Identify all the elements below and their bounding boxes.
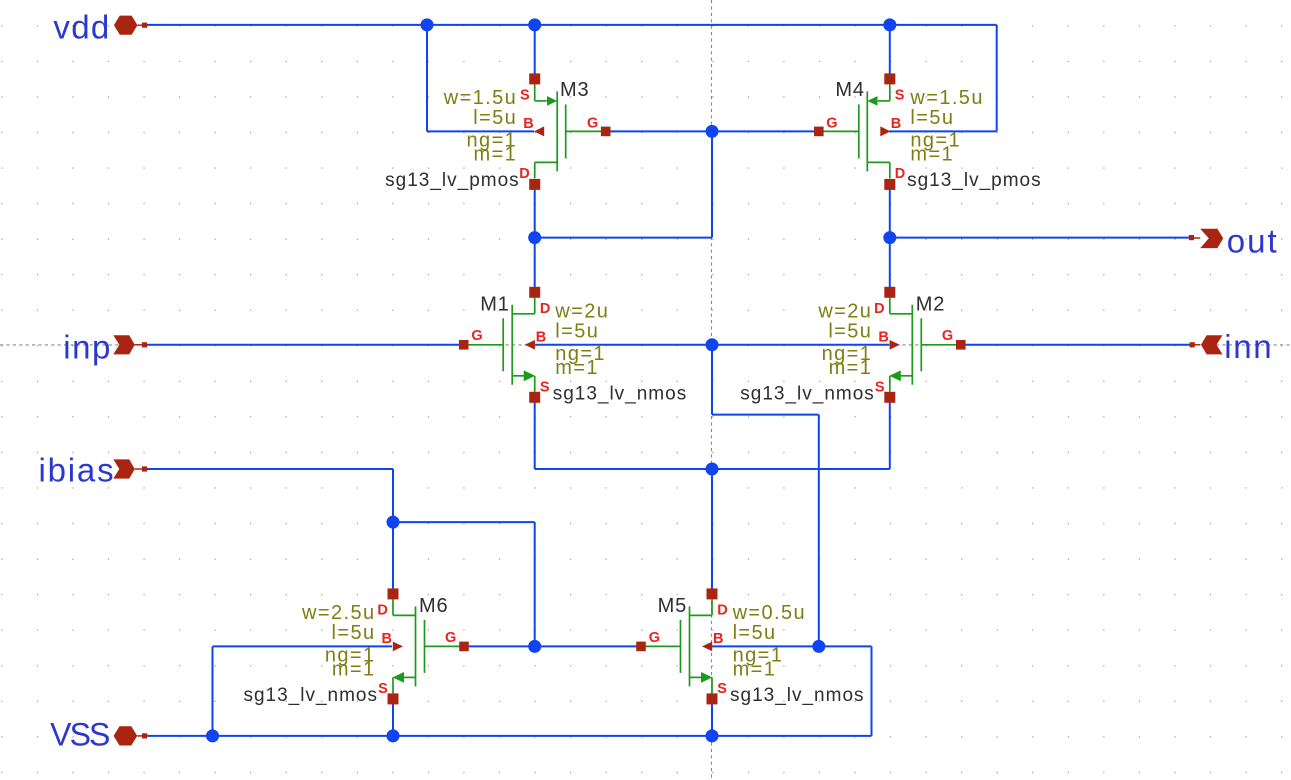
wire M4 drain to M2 drain xyxy=(889,185,891,292)
M1 parameters w l ng m xyxy=(554,301,609,379)
svg-text:D: D xyxy=(519,166,529,182)
wire node A horizontal xyxy=(535,237,712,239)
wire ibias horizontal xyxy=(145,468,393,470)
wire inp to M1 gate xyxy=(144,344,462,346)
wire M1 bulk to M2 bulk xyxy=(535,344,889,346)
power pin vdd (symbol) xyxy=(114,16,147,35)
svg-text:w=1.5u: w=1.5u xyxy=(909,87,983,109)
svg-text:VSS: VSS xyxy=(50,716,109,752)
svg-text:ibias: ibias xyxy=(39,452,116,489)
svg-text:S: S xyxy=(520,87,530,103)
wire M6 bulk horizontal xyxy=(213,645,393,647)
M3 pin labels S G B D xyxy=(519,87,598,182)
svg-text:m=1: m=1 xyxy=(910,143,954,165)
svg-text:S: S xyxy=(540,379,550,395)
M6 pin labels S G B D xyxy=(377,602,456,697)
junction xyxy=(706,338,719,351)
svg-text:inp: inp xyxy=(63,329,112,366)
svg-text:out: out xyxy=(1227,222,1279,259)
svg-text:l=5u: l=5u xyxy=(828,320,872,342)
svg-text:m=1: m=1 xyxy=(332,658,376,680)
svg-text:D: D xyxy=(717,602,727,618)
svg-text:vdd: vdd xyxy=(53,8,110,45)
wire bulk jog horizontal xyxy=(712,414,819,416)
svg-text:G: G xyxy=(649,630,660,646)
input pin ibias (symbol) xyxy=(113,459,147,478)
wire tail horizontal xyxy=(535,468,890,470)
junction xyxy=(387,516,400,529)
wire ibias down xyxy=(392,469,394,522)
svg-text:M2: M2 xyxy=(916,294,945,316)
wire M6 bulk down to VSS xyxy=(212,646,214,736)
wire M4 bulk (horizontal) xyxy=(889,130,996,132)
svg-text:w=2.5u: w=2.5u xyxy=(301,602,375,624)
svg-text:S: S xyxy=(875,379,885,395)
svg-text:D: D xyxy=(895,166,905,182)
output pin out (symbol) xyxy=(1189,229,1223,248)
wire M5 bulk to right xyxy=(711,645,872,647)
svg-text:sg13_lv_nmos: sg13_lv_nmos xyxy=(740,383,875,404)
svg-text:l=5u: l=5u xyxy=(555,320,599,342)
svg-text:sg13_lv_pmos: sg13_lv_pmos xyxy=(907,170,1042,191)
svg-text:sg13_lv_nmos: sg13_lv_nmos xyxy=(553,383,688,404)
svg-text:M5: M5 xyxy=(658,595,687,617)
input pin inn (symbol) xyxy=(1190,335,1223,354)
svg-text:w=0.5u: w=0.5u xyxy=(732,602,806,624)
svg-text:D: D xyxy=(540,301,550,317)
transistor M4 (sg13_lv_pmos) symbol xyxy=(814,73,895,189)
svg-text:l=5u: l=5u xyxy=(332,622,376,644)
junction xyxy=(883,231,896,244)
svg-text:D: D xyxy=(377,602,387,618)
svg-text:l=5u: l=5u xyxy=(473,107,517,129)
wire bulk drop from mid xyxy=(711,345,713,415)
M6 parameters w l ng m xyxy=(301,602,375,680)
wire M3 gate to M4 gate xyxy=(606,130,819,132)
wire M2 source down xyxy=(889,397,891,469)
junction xyxy=(706,729,719,742)
svg-text:S: S xyxy=(717,681,727,697)
junction xyxy=(206,729,219,742)
junction xyxy=(528,18,541,31)
svg-text:l=5u: l=5u xyxy=(910,107,954,129)
M5 pin labels S G B D xyxy=(649,602,728,697)
wire M5 source down xyxy=(711,699,713,736)
transistor M5 (sg13_lv_nmos) symbol xyxy=(636,588,717,704)
wire tail to M5 drain xyxy=(711,469,713,594)
wire ibias over to gates xyxy=(393,521,535,523)
M1 pin labels S G B D xyxy=(471,301,550,396)
svg-text:w=1.5u: w=1.5u xyxy=(443,87,517,109)
wire M2 gate to inn xyxy=(962,344,1193,346)
svg-text:sg13_lv_nmos: sg13_lv_nmos xyxy=(730,685,865,706)
svg-text:M1: M1 xyxy=(480,294,509,316)
svg-text:S: S xyxy=(895,87,905,103)
svg-text:M6: M6 xyxy=(419,595,448,617)
wire mirror gates down to node A xyxy=(711,131,713,237)
M4 pin labels S G B D xyxy=(826,87,905,182)
junction xyxy=(706,125,719,138)
wire M3 drain to M1 drain xyxy=(534,185,536,292)
svg-text:sg13_lv_pmos: sg13_lv_pmos xyxy=(385,170,520,191)
junction xyxy=(421,18,434,31)
svg-text:B: B xyxy=(878,330,888,346)
M5 parameters w l ng m xyxy=(732,602,806,680)
junction xyxy=(528,640,541,653)
transistor M1 (sg13_lv_nmos) symbol xyxy=(459,287,540,403)
svg-text:B: B xyxy=(523,116,533,132)
wire bulk down to bottom xyxy=(818,415,820,647)
svg-text:G: G xyxy=(826,115,837,131)
svg-text:m=1: m=1 xyxy=(829,357,873,379)
wire M1 source down xyxy=(534,397,536,469)
svg-text:G: G xyxy=(471,328,482,344)
transistor M2 (sg13_lv_nmos) symbol xyxy=(884,287,965,403)
M2 parameters w l ng m xyxy=(817,301,872,379)
wire down to M6/M5 gate net xyxy=(534,522,536,646)
svg-text:M4: M4 xyxy=(835,79,864,101)
svg-text:B: B xyxy=(382,631,392,647)
wire M6 source down xyxy=(392,699,394,736)
svg-text:w=2u: w=2u xyxy=(817,301,872,323)
svg-text:m=1: m=1 xyxy=(474,143,518,165)
svg-text:S: S xyxy=(378,681,388,697)
transistor M3 (sg13_lv_pmos) symbol xyxy=(529,73,610,189)
junction xyxy=(387,729,400,742)
wire vdd to M3 source xyxy=(534,25,536,79)
wire out node xyxy=(890,237,1192,239)
svg-text:M3: M3 xyxy=(560,79,589,101)
wire vdd right drop to M4 bulk xyxy=(996,25,998,131)
svg-text:G: G xyxy=(587,115,598,131)
svg-text:inn: inn xyxy=(1224,328,1273,365)
wire vdd rail xyxy=(145,24,997,26)
svg-text:B: B xyxy=(713,631,723,647)
transistor M6 (sg13_lv_nmos) symbol xyxy=(388,588,469,704)
junction xyxy=(706,463,719,476)
svg-text:m=1: m=1 xyxy=(733,658,777,680)
wire bulk riser to VSS xyxy=(871,646,873,736)
svg-text:G: G xyxy=(942,328,953,344)
wire M3 bulk (horizontal) xyxy=(427,130,534,132)
svg-text:m=1: m=1 xyxy=(555,357,599,379)
M3 parameters w l ng m xyxy=(443,87,517,165)
svg-text:D: D xyxy=(874,301,884,317)
svg-text:B: B xyxy=(536,330,546,346)
svg-text:l=5u: l=5u xyxy=(733,622,777,644)
junction xyxy=(883,18,896,31)
wire vdd to M4 source xyxy=(889,25,891,79)
svg-text:B: B xyxy=(891,116,901,132)
svg-text:sg13_lv_nmos: sg13_lv_nmos xyxy=(243,685,378,706)
junction xyxy=(812,640,825,653)
input pin inp (symbol) xyxy=(113,335,147,354)
junction xyxy=(528,231,541,244)
M2 pin labels S G B D xyxy=(874,301,953,396)
wire M6 gate to M5 gate xyxy=(465,645,641,647)
wire VSS rail xyxy=(147,735,871,737)
wire ibias junction to M6 drain xyxy=(392,522,394,594)
wire vdd to M3 bulk (vertical) xyxy=(426,25,428,131)
svg-text:G: G xyxy=(445,630,456,646)
power pin VSS (symbol) xyxy=(114,726,148,745)
svg-text:w=2u: w=2u xyxy=(554,301,609,323)
M4 parameters w l ng m xyxy=(909,87,983,165)
